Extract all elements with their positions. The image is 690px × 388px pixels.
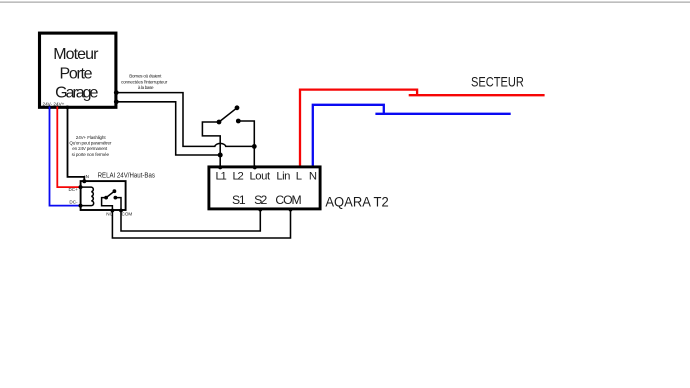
- wire SECTEUR neutral segment: [375, 113, 510, 115]
- terminal dot motor bottom 24V-: [48, 106, 52, 110]
- node junction L1: [218, 153, 223, 158]
- node Aqara Lout: [253, 165, 257, 169]
- svg-text:Lin: Lin: [276, 171, 290, 183]
- wire relay NO to Aqara COM: [112, 210, 290, 239]
- note "24V+ Flashlight ...": [69, 135, 112, 157]
- svg-text:Lout: Lout: [249, 171, 271, 183]
- svg-text:en 24V permanent: en 24V permanent: [72, 146, 108, 151]
- top border line: [0, 2, 690, 3]
- relay wire pivot to NO pin: [102, 198, 113, 211]
- node relay COM: [119, 209, 123, 213]
- svg-text:si porte non fermée: si porte non fermée: [72, 152, 110, 157]
- wire switch fixed contact to Lout junction: [238, 121, 254, 146]
- relay wire contact to COM pin: [115, 198, 121, 211]
- svg-text:à la base: à la base: [138, 85, 154, 90]
- node relay DC+: [79, 185, 83, 189]
- wire Lout vertical drop: [253, 146, 255, 167]
- terminal dot motor bottom common: [66, 106, 70, 110]
- svg-text:Porte: Porte: [59, 65, 92, 82]
- wire 24V+ red motor to relay DC+: [57, 107, 80, 188]
- node relay DC-: [79, 204, 83, 208]
- node Aqara L1: [218, 165, 222, 169]
- svg-text:DC+: DC+: [68, 187, 78, 192]
- node Aqara S2: [258, 208, 262, 212]
- node relay NO: [111, 209, 115, 213]
- wire SECTEUR live segment: [409, 94, 545, 96]
- node junction Lout: [252, 144, 257, 149]
- svg-text:Bornes où étaient: Bornes où étaient: [129, 74, 162, 79]
- node relay IN: [82, 179, 86, 183]
- switch S1 (interrupteur) arm: [219, 108, 237, 122]
- motor label "Moteur Porte Garage": [53, 46, 99, 101]
- relay switch arm: [106, 191, 114, 197]
- svg-text:RELAI 24V/Haut-Bas: RELAI 24V/Haut-Bas: [98, 171, 156, 180]
- svg-text:IN: IN: [84, 174, 89, 179]
- wire motor terminal2 to L1 (black): [116, 102, 220, 167]
- Aqara terminal labels row 2: [232, 193, 302, 207]
- svg-text:AQARA T2: AQARA T2: [325, 195, 388, 211]
- svg-text:SECTEUR: SECTEUR: [471, 75, 524, 90]
- relay fixed contact: [114, 196, 118, 200]
- terminal dot motor right upper: [114, 90, 119, 95]
- svg-text:Qu'on peut paramétrer: Qu'on peut paramétrer: [69, 141, 112, 146]
- svg-text:connectées l'interrupteur: connectées l'interrupteur: [121, 79, 168, 84]
- svg-text:S2: S2: [254, 193, 267, 207]
- svg-text:S1: S1: [232, 193, 246, 207]
- svg-text:L2: L2: [232, 171, 243, 183]
- wire black motor to relay IN: [68, 107, 85, 182]
- svg-text:N: N: [309, 171, 317, 183]
- svg-text:Moteur: Moteur: [53, 46, 99, 63]
- svg-text:L: L: [296, 171, 302, 183]
- svg-text:24V+ Flashlight: 24V+ Flashlight: [76, 135, 107, 140]
- svg-text:24V- 24V+: 24V- 24V+: [43, 102, 65, 108]
- relay coil: [81, 187, 94, 206]
- node Aqara COM: [289, 208, 293, 212]
- svg-text:L1: L1: [216, 171, 227, 183]
- wire L red to SECTEUR: [300, 90, 417, 167]
- wire N blue to SECTEUR: [313, 105, 384, 167]
- Aqara T2 box U1: [209, 167, 320, 209]
- wire relay COM to Aqara S2: [121, 210, 260, 232]
- Aqara terminal labels row 1: [216, 171, 317, 183]
- svg-text:COM: COM: [122, 211, 133, 216]
- terminal dot motor bottom 24V+: [55, 106, 59, 110]
- svg-text:Garage: Garage: [55, 84, 98, 101]
- wire 24V- blue motor to relay DC-: [50, 107, 81, 206]
- wire motor terminal1 to Lout (black): [116, 93, 254, 147]
- motor box M1: [40, 33, 116, 107]
- svg-text:COM: COM: [275, 193, 301, 207]
- switch fixed contact dot: [236, 119, 241, 124]
- svg-text:DC-: DC-: [69, 199, 78, 204]
- terminal dot motor right lower: [114, 99, 119, 104]
- note "Bornes où étaient connectées l'interrupteur à la base": [121, 74, 168, 91]
- wire switch pivot branch: [202, 122, 220, 155]
- relay K1 box: [81, 181, 126, 210]
